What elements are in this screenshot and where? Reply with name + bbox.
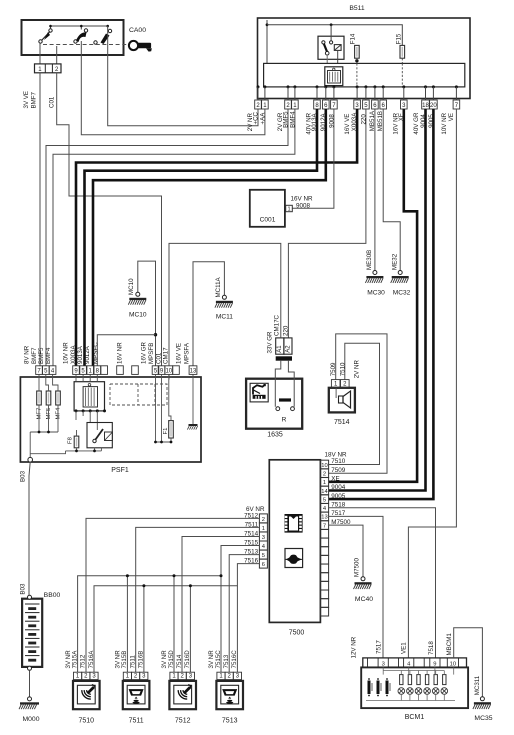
ground MC10 <box>128 261 156 366</box>
relay K1 in B511 <box>318 25 344 64</box>
svg-text:3: 3 <box>355 103 359 109</box>
svg-text:6: 6 <box>373 103 377 109</box>
svg-text:9: 9 <box>74 368 78 374</box>
svg-text:14: 14 <box>321 489 328 495</box>
svg-text:1: 1 <box>323 480 326 486</box>
ignition switch CA00 <box>22 20 124 55</box>
C001 pin 1 <box>286 205 293 212</box>
svg-text:ME32: ME32 <box>392 253 399 270</box>
buzzer 7514 outline <box>329 388 355 413</box>
svg-text:16V NR: 16V NR <box>117 342 124 364</box>
BCM1 internal wiring <box>366 667 455 700</box>
svg-text:MC35: MC35 <box>474 715 492 722</box>
7500 left wire labels <box>244 512 259 564</box>
svg-text:MC40: MC40 <box>355 596 373 603</box>
fuse F8 <box>68 436 79 448</box>
svg-text:+AA: +AA <box>259 112 266 125</box>
svg-text:13: 13 <box>321 515 327 521</box>
fuse MF7 <box>37 391 43 420</box>
svg-text:2: 2 <box>262 517 265 523</box>
park sensor 7511 <box>115 650 150 725</box>
park sensor 7510 <box>65 650 100 725</box>
svg-text:1: 1 <box>263 103 267 109</box>
svg-text:1: 1 <box>38 67 42 73</box>
svg-text:7: 7 <box>37 368 41 374</box>
svg-text:5: 5 <box>81 368 85 374</box>
horn icon in 1635 <box>250 383 268 402</box>
svg-text:M7500: M7500 <box>353 558 360 577</box>
wire S1 to C01 pin1 <box>39 43 41 64</box>
label 7500 <box>289 630 305 637</box>
svg-text:7516D: 7516D <box>184 650 191 669</box>
wire M7500 to MC40 <box>329 525 374 603</box>
svg-text:2: 2 <box>256 103 260 109</box>
svg-text:10: 10 <box>450 661 456 667</box>
label PSF1 <box>111 467 129 474</box>
wire CM17C (PSF1 pin10 to 1635 A1) <box>169 243 281 365</box>
PSF1 connector pins <box>36 366 197 375</box>
svg-text:MC10: MC10 <box>128 278 135 295</box>
svg-text:7511: 7511 <box>129 655 136 669</box>
7500 right connector pins <box>320 460 328 616</box>
label C01 <box>49 96 56 108</box>
ground MC30 <box>365 250 385 297</box>
svg-text:MC10: MC10 <box>129 312 147 319</box>
label BCM1 <box>405 714 425 721</box>
svg-text:BMF5: BMF5 <box>38 347 45 364</box>
svg-text:1: 1 <box>293 103 297 109</box>
wire MB51B (B511 to MC32) <box>383 109 400 271</box>
dashed links through bus box <box>357 63 402 87</box>
svg-text:MF7: MF7 <box>37 408 43 420</box>
switch block in PSF1 <box>87 423 113 448</box>
svg-text:16V NR: 16V NR <box>291 195 314 202</box>
svg-text:BMF7: BMF7 <box>31 91 38 108</box>
dashed expansion box in PSF1 <box>110 384 167 405</box>
mechanical dashed link to key <box>43 44 128 46</box>
ground MC11 <box>193 262 233 366</box>
label CM17C <box>274 314 281 336</box>
wire 7516 bus <box>94 564 259 673</box>
svg-text:5: 5 <box>323 497 326 503</box>
svg-text:ME30B: ME30B <box>366 250 373 270</box>
wire PSF1 switch bus <box>30 430 101 454</box>
wire BMF7 (C01 to PSF1 pin7) <box>39 73 41 366</box>
svg-text:6: 6 <box>382 103 386 109</box>
label 1635 <box>267 432 283 439</box>
label 2V NR at 7514 <box>354 360 361 379</box>
control module in B511 <box>325 67 343 86</box>
svg-text:2: 2 <box>228 674 232 680</box>
svg-text:MF4: MF4 <box>56 407 62 420</box>
svg-text:MBCM1: MBCM1 <box>446 633 453 656</box>
wire 9004 thick (B511 to 7500 pin14) <box>329 109 426 491</box>
park sensor 7512 <box>161 650 196 725</box>
svg-text:2: 2 <box>134 674 138 680</box>
svg-text:MF5: MF5 <box>46 407 52 420</box>
7500 left connector pins <box>259 514 267 568</box>
svg-text:7: 7 <box>455 103 459 109</box>
wire B511 internal feed <box>266 20 269 63</box>
svg-text:2: 2 <box>55 67 59 73</box>
svg-text:2: 2 <box>181 674 185 680</box>
park sensor 7513 <box>208 650 243 725</box>
horn 1635 outline <box>246 379 302 429</box>
svg-text:8: 8 <box>315 103 319 109</box>
svg-text:XE: XE <box>331 476 339 483</box>
terminal B03 on PSF1 <box>28 457 33 462</box>
module BCM1 outline <box>361 667 468 708</box>
label B511 <box>349 5 365 12</box>
svg-text:C001: C001 <box>260 217 276 224</box>
svg-text:9013A: 9013A <box>77 345 84 364</box>
svg-text:9: 9 <box>433 661 436 667</box>
ground MC32 <box>391 253 411 296</box>
svg-text:3: 3 <box>262 535 265 541</box>
label VE1 at BCM1 <box>401 642 408 654</box>
svg-text:5: 5 <box>262 553 265 559</box>
label MBCM1 at BCM1 <box>446 633 453 656</box>
svg-text:7: 7 <box>323 523 326 529</box>
svg-text:7515A: 7515A <box>71 650 78 669</box>
ground MC35 <box>473 675 493 722</box>
svg-text:BMF4: BMF4 <box>289 111 296 128</box>
wire 7518 (7500 pin4 to BCM1 pin9) <box>329 508 436 658</box>
wire 9013A thick (B511 to PSF1) <box>85 109 318 366</box>
svg-text:7517: 7517 <box>375 640 382 654</box>
7500 right wire labels <box>331 458 351 526</box>
svg-text:7510: 7510 <box>79 718 95 725</box>
svg-text:1: 1 <box>172 674 176 680</box>
svg-text:F15: F15 <box>396 33 403 44</box>
svg-text:5: 5 <box>364 103 368 109</box>
connector C001 <box>250 190 285 227</box>
svg-text:12V NR: 12V NR <box>350 636 357 658</box>
svg-text:7: 7 <box>332 103 336 109</box>
svg-text:MC30: MC30 <box>367 290 385 297</box>
svg-text:7500: 7500 <box>289 630 305 637</box>
relay module in PSF1 <box>74 382 104 411</box>
svg-text:BB00: BB00 <box>44 592 61 599</box>
wire 7513 (7500 to 7513 pin2) <box>229 555 259 673</box>
switch contact S3 in CA00 <box>94 29 112 44</box>
wire B511 top bus <box>267 23 402 45</box>
svg-text:PSF1: PSF1 <box>111 467 129 474</box>
svg-text:XE: XE <box>398 113 405 121</box>
wire PSF1 fuse feeds <box>39 374 58 391</box>
svg-text:9004: 9004 <box>331 484 346 491</box>
svg-text:1: 1 <box>219 674 223 680</box>
svg-text:3V VE: 3V VE <box>23 91 30 109</box>
svg-text:VE: VE <box>448 113 455 121</box>
svg-text:MC11: MC11 <box>216 314 233 321</box>
junction cross at PSF1 pin10 <box>166 375 172 380</box>
svg-text:5: 5 <box>44 368 48 374</box>
label BMF7 <box>31 91 38 108</box>
svg-text:BMF4: BMF4 <box>45 347 52 364</box>
label 7514 <box>334 419 350 426</box>
svg-text:7515B: 7515B <box>121 651 128 669</box>
svg-text:1: 1 <box>76 674 80 680</box>
PSF1 relay output junctions <box>75 374 107 430</box>
svg-text:16V VE: 16V VE <box>176 343 183 364</box>
label 220 <box>282 325 289 336</box>
svg-text:A2: A2 <box>285 345 291 353</box>
key symbol <box>129 41 152 52</box>
fuse F14 <box>349 33 359 63</box>
fuse F1 <box>163 421 173 438</box>
svg-text:3: 3 <box>189 674 193 680</box>
label B03 upper <box>19 470 26 482</box>
svg-text:BMF7: BMF7 <box>31 347 38 364</box>
svg-text:8V NR: 8V NR <box>24 345 31 364</box>
wire BMF5 (B511 to PSF1 pin5) <box>46 109 288 366</box>
svg-text:C01: C01 <box>49 96 56 108</box>
module PSF1 outline <box>20 377 201 462</box>
svg-text:9004: 9004 <box>420 114 427 128</box>
svg-text:A1: A1 <box>277 345 283 353</box>
svg-text:7516A: 7516A <box>88 650 95 669</box>
svg-text:C01: C01 <box>156 352 163 364</box>
svg-text:6: 6 <box>262 562 265 568</box>
wire XE thick (B511 to 7500 pin1) <box>329 109 418 482</box>
svg-text:2V NR: 2V NR <box>354 360 361 379</box>
svg-text:X003A: X003A <box>351 112 358 131</box>
svg-text:9005: 9005 <box>331 493 346 500</box>
label 7509 at 7514 <box>330 362 337 376</box>
svg-text:10: 10 <box>321 463 327 469</box>
svg-text:7515D: 7515D <box>168 650 175 669</box>
label R in 1635 <box>282 417 287 424</box>
svg-text:MC311: MC311 <box>474 675 481 695</box>
svg-text:7513: 7513 <box>222 718 238 725</box>
fuse MF5 <box>46 391 52 420</box>
label 12V NR at BCM1 <box>350 636 357 658</box>
wire 9005 thick (B511 to 7500 pin5) <box>329 109 434 499</box>
svg-text:1635: 1635 <box>267 432 283 439</box>
svg-text:MB51B: MB51B <box>377 111 384 131</box>
svg-text:CM17C: CM17C <box>274 314 281 336</box>
svg-text:1: 1 <box>89 368 93 374</box>
svg-text:R: R <box>282 417 287 424</box>
wire BB00 to M000 <box>29 670 31 697</box>
wire 9008 (B511 to C001) <box>292 109 334 208</box>
svg-text:M000: M000 <box>22 716 39 723</box>
svg-text:MPSFA: MPSFA <box>184 342 191 364</box>
label 16V NR 9008 <box>291 195 314 209</box>
fuse MF4 <box>56 391 62 420</box>
svg-text:220: 220 <box>282 325 289 336</box>
svg-text:7511: 7511 <box>129 718 144 725</box>
svg-text:3: 3 <box>236 674 240 680</box>
svg-text:MC11A: MC11A <box>215 276 222 297</box>
svg-text:2: 2 <box>323 472 326 478</box>
label 6V NR at 7500 <box>246 506 265 513</box>
fuse F15 <box>396 33 405 63</box>
svg-text:6: 6 <box>324 103 328 109</box>
B511 internal bus box <box>264 63 465 87</box>
wire 220 (B511 to 1635 A2) <box>288 109 366 338</box>
svg-text:7515C: 7515C <box>215 650 222 669</box>
wire S1 output to C01 pin2 <box>56 46 58 64</box>
svg-text:16V GR: 16V GR <box>141 341 148 364</box>
wire PSF1 internal bus to B03 <box>30 405 58 458</box>
wire B03 (PSF1 to BB00) <box>29 462 30 596</box>
svg-text:18: 18 <box>422 103 429 109</box>
svg-text:4: 4 <box>407 661 411 667</box>
svg-text:9008: 9008 <box>296 202 311 209</box>
svg-text:9008: 9008 <box>328 114 335 128</box>
svg-text:MB51A: MB51A <box>369 110 376 131</box>
svg-text:7514: 7514 <box>334 419 350 426</box>
svg-text:1: 1 <box>126 674 130 680</box>
svg-text:3: 3 <box>92 674 96 680</box>
svg-text:MC32: MC32 <box>393 290 411 297</box>
svg-text:3: 3 <box>382 661 385 667</box>
wire 7514 (7500 to 7512 pin2) <box>182 537 259 673</box>
svg-text:10: 10 <box>165 368 172 374</box>
svg-text:BCM1: BCM1 <box>405 714 425 721</box>
PSF1 wire name labels <box>24 341 191 364</box>
svg-text:7518: 7518 <box>428 641 435 655</box>
label 7510 at 7514 <box>340 362 347 376</box>
svg-text:8: 8 <box>96 368 100 374</box>
label 33V GR <box>266 331 273 354</box>
svg-text:7509: 7509 <box>331 467 346 474</box>
svg-text:7513: 7513 <box>223 654 230 668</box>
switch contact S1 in CA00 <box>39 26 52 43</box>
battery BB00 <box>22 592 60 670</box>
speaker icon in 7514 <box>336 388 350 408</box>
label B03 lower <box>19 583 26 595</box>
wire MPSFC (PSF1 pin8) <box>97 335 155 366</box>
svg-text:B511: B511 <box>349 5 365 12</box>
B511 connector pins <box>255 85 460 109</box>
wire PSF1 right bus <box>154 374 172 443</box>
label 7518 at BCM1 <box>428 641 435 655</box>
svg-text:9012A: 9012A <box>320 112 327 131</box>
svg-text:33V GR: 33V GR <box>266 331 273 354</box>
wire 9012A thick (B511 to PSF1) <box>93 109 326 366</box>
svg-text:2: 2 <box>84 674 88 680</box>
wire MBCM1 to MC35 <box>454 628 483 697</box>
svg-text:7514: 7514 <box>176 654 183 668</box>
wires 1635 pins to terminals <box>275 361 294 407</box>
1635 heater element <box>276 398 295 410</box>
wire +AA (CA00 to B511 pin1) <box>81 41 265 135</box>
svg-text:10V NR: 10V NR <box>63 342 70 364</box>
wire 7509 (7514 pin1 to 7500 pin2) <box>329 334 387 473</box>
svg-text:7512: 7512 <box>175 718 191 725</box>
wire MB51A (B511 to MC30) <box>374 109 376 271</box>
svg-text:7516C: 7516C <box>231 650 238 669</box>
wire 7510 (7514 pin2 to 7500 pin10) <box>329 343 380 464</box>
car icon in 7500 <box>285 549 303 568</box>
svg-text:4: 4 <box>51 368 55 374</box>
svg-text:9: 9 <box>160 368 164 374</box>
svg-text:MPSFC: MPSFC <box>93 342 100 364</box>
label CA00 <box>129 27 146 34</box>
svg-text:MPSFB: MPSFB <box>148 343 155 364</box>
module BCM1 strip <box>363 658 467 668</box>
ground M000 <box>19 697 40 723</box>
label 7517 at BCM1 <box>375 640 382 654</box>
wire +CC (CA00 to B511 pin2) <box>108 33 258 126</box>
IC icon in 7500 <box>285 514 303 533</box>
svg-text:3: 3 <box>402 103 406 109</box>
svg-text:2: 2 <box>286 103 290 109</box>
wire 7515 bus <box>78 546 260 673</box>
svg-text:B03: B03 <box>19 470 26 482</box>
wire 7511 (7500 to 7511 pin2) <box>136 527 260 672</box>
wire VE (B511 to BCM1 pin4 VE1) <box>408 109 456 658</box>
svg-text:CA00: CA00 <box>129 27 146 34</box>
svg-text:5: 5 <box>154 368 158 374</box>
BCM1 relays <box>368 678 391 696</box>
svg-text:F8: F8 <box>68 436 74 444</box>
wire BMF4 (B511 to PSF1 pin4) <box>53 109 295 366</box>
svg-text:X003A: X003A <box>70 345 77 364</box>
svg-text:1: 1 <box>287 207 290 213</box>
svg-text:3: 3 <box>142 674 146 680</box>
label 3V VE <box>23 91 30 109</box>
junction MPSFB/MPSFC <box>154 333 157 336</box>
7514 pins 1 2 <box>331 380 349 388</box>
svg-text:7516B: 7516B <box>138 651 145 669</box>
svg-text:20: 20 <box>430 103 437 109</box>
svg-text:F14: F14 <box>349 33 356 44</box>
svg-text:VE1: VE1 <box>401 642 408 654</box>
wire 7512 (7500 to 7510 pin2) <box>86 518 259 672</box>
svg-text:4: 4 <box>262 544 266 550</box>
svg-text:1: 1 <box>334 381 338 387</box>
module B511 outline <box>258 18 471 99</box>
internal ground in PSF1 <box>187 374 197 429</box>
connector C01 <box>35 64 62 73</box>
BCM1 fuses and lamps <box>398 675 448 695</box>
svg-text:1: 1 <box>262 526 265 532</box>
svg-text:4: 4 <box>323 506 327 512</box>
B511 wire name labels <box>247 110 455 135</box>
svg-text:F1: F1 <box>163 428 169 435</box>
svg-text:9013A: 9013A <box>311 112 318 131</box>
module 7500 outline <box>269 460 320 623</box>
svg-text:7510: 7510 <box>331 458 346 465</box>
wire C01 pin2 to PSF1 pin9 <box>57 73 162 366</box>
switch contact S2 in CA00 <box>74 26 88 43</box>
1635 pins A1 A2 <box>276 338 292 361</box>
svg-text:9012A: 9012A <box>84 345 91 364</box>
svg-text:2: 2 <box>343 381 347 387</box>
svg-text:B03: B03 <box>19 583 26 595</box>
wire 7517 (7500 pin13 to BCM1 pin3) <box>329 516 383 658</box>
label 18V NR at 7500 <box>325 451 348 458</box>
wire X003A thick (B511 to PSF1) <box>76 109 357 366</box>
svg-text:220: 220 <box>360 114 367 125</box>
svg-text:9005: 9005 <box>428 114 435 128</box>
svg-text:13: 13 <box>190 368 197 374</box>
wire CA00 internal top bus <box>49 25 109 33</box>
svg-text:7512: 7512 <box>80 654 87 668</box>
svg-text:7510: 7510 <box>340 362 347 376</box>
